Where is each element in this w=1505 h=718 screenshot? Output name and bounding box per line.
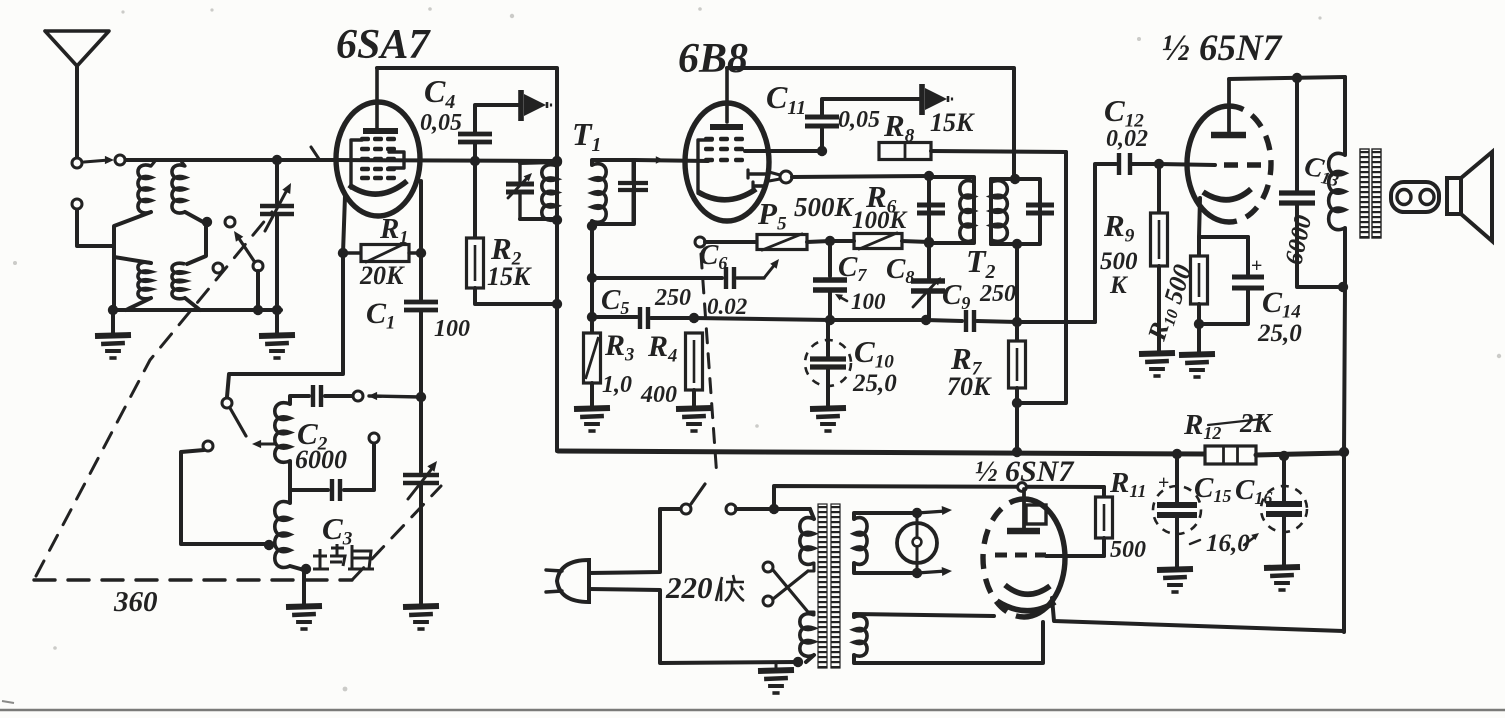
power transformer core	[818, 504, 827, 668]
wire oscillator top row	[290, 396, 309, 404]
output transformer core	[1360, 149, 1369, 238]
ground antenna right	[275, 311, 279, 333]
wire AVC row	[592, 276, 722, 280]
svg-text:100K: 100K	[852, 207, 909, 234]
tube U2 6B8 envelope	[685, 103, 769, 221]
wire oscillator coil to ground	[290, 566, 304, 604]
wire T1 secondary to 6B8 grid	[634, 160, 708, 161]
6SN7 cathode	[1203, 189, 1251, 200]
T2 primary capacitor	[917, 203, 945, 208]
ground C10	[810, 408, 846, 409]
wire L2 bottom to band switch	[185, 212, 205, 223]
wire 6SN7 cathode to R10	[1199, 198, 1200, 237]
wire rectifier cathode to B+ riser	[1052, 598, 1343, 631]
ground C15	[1157, 569, 1193, 570]
wire switch to transformer	[736, 507, 810, 511]
rectifier cathode	[1005, 585, 1050, 594]
wire lever to ground rail	[256, 271, 260, 310]
wire 6SA7 cathode lead	[343, 196, 345, 253]
chassis ground at C4	[518, 90, 524, 121]
band switch idle contact	[213, 263, 223, 273]
capacitor C6	[724, 267, 728, 289]
wire L3 bottom	[126, 298, 151, 310]
6SN7 grid dashes	[1224, 162, 1264, 167]
capacitor C15 electrolytic	[1175, 454, 1179, 502]
speaker	[1447, 178, 1461, 214]
potentiometer P5	[705, 240, 757, 244]
switch S1 antenna	[72, 158, 82, 168]
resistor R8	[879, 143, 931, 160]
variable capacitor tuning gang oscillator	[419, 397, 423, 472]
coil L2 antenna secondary	[172, 165, 185, 213]
wire 6SA7 grid to C4 node	[336, 160, 557, 161]
capacitor C11	[820, 129, 824, 151]
resistor R10	[1197, 237, 1201, 256]
speaker voice-coil connector	[1391, 182, 1439, 212]
svg-text:6SA7: 6SA7	[336, 22, 431, 68]
capacitor C13	[1295, 78, 1299, 190]
capacitor C3 series	[290, 488, 328, 492]
svg-text:6000: 6000	[295, 445, 347, 474]
capacitor C10 electrolytic	[826, 320, 830, 356]
resistor R3	[584, 333, 601, 383]
svg-text:250: 250	[654, 285, 691, 311]
svg-text:70K: 70K	[947, 372, 992, 401]
variable capacitor tuning gang RF	[272, 155, 282, 165]
primary voltage-select cross	[763, 562, 773, 572]
svg-text:20K: 20K	[359, 261, 405, 290]
capacitor C8 trimmer	[927, 242, 931, 278]
svg-text:1,0: 1,0	[602, 372, 632, 398]
ground C16	[1264, 567, 1300, 568]
wire 6SA7 oscillator feedback to coil switch	[227, 253, 343, 397]
oscillator switch	[222, 398, 232, 408]
C3 upper terminal	[369, 433, 379, 443]
chassis ground at C11	[919, 84, 925, 115]
6B8 diode pin	[769, 172, 780, 175]
svg-text:500: 500	[1100, 248, 1138, 275]
resistor R7	[1015, 322, 1019, 341]
antenna idle terminal	[72, 199, 82, 209]
6B8 grid structure	[698, 140, 712, 193]
6B8 top cap stem	[725, 68, 729, 122]
wire 6SA7 top cap to B+ riser	[377, 68, 557, 451]
wire B+ bus	[558, 451, 1205, 454]
wire detector row middle	[694, 318, 830, 320]
power transformer primary upper	[810, 509, 814, 519]
R12 label strike mark	[1208, 419, 1262, 425]
band switch contact	[225, 217, 235, 227]
resistor R1	[338, 248, 348, 258]
ground R3	[574, 408, 610, 409]
heater winding lower	[854, 616, 867, 656]
svg-text:25,0: 25,0	[852, 370, 897, 397]
wire antenna ground rail	[113, 308, 281, 312]
capacitor C7	[828, 241, 832, 276]
rectifier grid dashes	[995, 553, 1046, 558]
dashed gang line volume switch	[701, 254, 717, 478]
svg-text:6B8: 6B8	[678, 36, 748, 82]
wire L4 bottom	[185, 298, 200, 310]
paper specks	[510, 14, 514, 18]
svg-text:K: K	[1109, 272, 1129, 299]
wire B+ riser right	[1344, 287, 1345, 632]
T1 primary trimmer capacitor	[518, 163, 521, 181]
svg-text:250: 250	[979, 281, 1016, 307]
wire mains upper	[589, 509, 681, 573]
6SA7 top cap stem	[375, 68, 379, 129]
oscillator left loop terminal	[203, 441, 213, 451]
oscillator coil upper	[275, 403, 290, 463]
ground R4	[676, 408, 712, 409]
wire diode pin to T2 primary	[792, 176, 929, 177]
C3 padder glyphs	[313, 544, 374, 569]
wire to tuning cap line	[369, 396, 421, 397]
6B8 diode plates	[746, 170, 749, 178]
wire detector row	[592, 315, 637, 319]
wire detector row right	[830, 318, 926, 322]
output transformer primary	[1343, 77, 1347, 155]
wire heater to rectifier filament	[854, 614, 994, 617]
svg-text:0,02: 0,02	[1106, 126, 1148, 152]
oscillator terminal	[353, 391, 363, 401]
wire idle terminal to ground rail	[77, 210, 112, 246]
wire to L4	[187, 223, 206, 264]
wire T1 secondary lower rail	[590, 221, 594, 333]
power switch S2	[681, 504, 691, 514]
coil L3 shortwave primary	[138, 262, 151, 299]
wire grid bus from switch to 6SA7	[126, 158, 336, 162]
resistor R11	[1102, 487, 1106, 497]
ground R9	[1139, 353, 1175, 354]
svg-text:+: +	[1251, 255, 1262, 277]
tube U1 6SA7 envelope	[336, 102, 420, 216]
svg-text:½ 65N7: ½ 65N7	[1162, 28, 1283, 69]
svg-text:100: 100	[851, 289, 886, 314]
wire L3 top	[114, 257, 151, 263]
power transformer primary lower	[800, 614, 814, 656]
resistor R4	[686, 333, 703, 390]
wire rectifier grid to R11	[1046, 554, 1104, 558]
svg-text:+: +	[1158, 472, 1169, 494]
ground antenna left	[111, 310, 115, 333]
resistor R2	[473, 161, 477, 238]
resistor R6	[854, 234, 902, 249]
wire 6SN7 plate to output transformer	[1229, 77, 1345, 79]
T1 secondary winding	[592, 164, 606, 223]
capacitor C1	[419, 253, 423, 300]
wire between oscillator coils	[288, 461, 292, 503]
ground power transformer	[775, 662, 778, 668]
capacitor C16 electrolytic	[1282, 456, 1286, 501]
wire 6B8 plate to R8	[745, 149, 822, 153]
wire detector node to C12 riser	[1017, 320, 1095, 324]
svg-text:400: 400	[640, 382, 677, 408]
wire heater return	[854, 622, 1043, 663]
T2 secondary capacitor	[1026, 203, 1054, 208]
wire oscillator left loop	[181, 450, 266, 544]
stray tick on grid wire	[311, 147, 319, 159]
rectifier plate	[1022, 489, 1026, 529]
svg-text:360: 360	[113, 586, 158, 618]
potentiometer P5 terminal	[695, 237, 705, 247]
wire R7 node to B+ bus	[1015, 403, 1019, 452]
C7 value arrow	[838, 296, 847, 301]
wire L1 bottom	[114, 212, 151, 310]
svg-text:2K: 2K	[1239, 408, 1274, 438]
coil L4 shortwave secondary	[172, 263, 185, 299]
capacitor C14	[1199, 235, 1248, 239]
T2 secondary winding	[991, 179, 1040, 244]
wire B+ bus right	[1256, 453, 1344, 455]
coil L1 antenna primary	[138, 165, 151, 213]
svg-text:15K: 15K	[930, 108, 975, 137]
ground oscillator tuning	[403, 606, 439, 607]
T1 secondary capacitor	[632, 160, 635, 180]
T2 primary winding	[929, 177, 974, 243]
svg-text:500: 500	[1110, 537, 1146, 563]
wire antenna lead	[75, 66, 79, 157]
wire R8 to R7 bottom	[1017, 152, 1066, 403]
svg-text:0.02: 0.02	[707, 294, 747, 319]
svg-text:100: 100	[434, 316, 470, 342]
wire T2 secondary to detector node	[1015, 244, 1019, 322]
capacitor C2 series	[311, 385, 315, 407]
oscillator coil lower	[275, 502, 290, 568]
oscillator tap arrow	[256, 443, 276, 446]
heater winding upper	[854, 518, 867, 565]
6SN7 plate	[1227, 80, 1231, 131]
wire 6SA7 pin to R1/C1	[419, 181, 423, 253]
band switch lever	[253, 261, 263, 271]
tube U3 half 6SN7 audio envelope	[1187, 106, 1229, 222]
wire switch node to rectifier plate	[774, 486, 1104, 509]
ground oscillator coil	[286, 606, 322, 607]
resistor R9	[1157, 164, 1161, 213]
wire C12 to 6SN7 grid	[1159, 164, 1215, 165]
6B8 cathode	[698, 189, 756, 200]
wire mains lower	[589, 589, 798, 663]
mains plug	[557, 560, 589, 602]
pilot lamp	[897, 523, 937, 563]
capacitor C12	[1117, 153, 1121, 175]
ground R10/C14	[1197, 324, 1201, 352]
svg-text:0,05: 0,05	[838, 107, 880, 133]
svg-text:500K: 500K	[794, 192, 855, 222]
antenna	[45, 31, 109, 66]
svg-text:½ 6SN7: ½ 6SN7	[975, 455, 1074, 488]
capacitor C5	[638, 307, 642, 329]
svg-text:220: 220	[665, 570, 713, 605]
svg-text:0,05: 0,05	[420, 110, 462, 136]
tube U4 half 6SN7 rectifier envelope	[983, 499, 1024, 617]
dashed gang line tuning	[36, 212, 272, 576]
svg-text:16,0: 16,0	[1206, 530, 1250, 557]
220V unit glyph	[716, 575, 744, 601]
6SA7 grid structure	[351, 140, 362, 188]
wire 6B8 top cap to T2 riser	[727, 68, 1014, 178]
capacitor C9	[964, 310, 968, 332]
resistor R12	[1205, 446, 1256, 464]
capacitor C4	[470, 156, 480, 166]
wire detector to C12	[1095, 164, 1116, 322]
page rule artifact	[0, 709, 1505, 711]
6SA7 cathode	[349, 181, 407, 194]
svg-text:15K: 15K	[487, 262, 532, 291]
svg-text:25,0: 25,0	[1257, 320, 1302, 347]
T1 primary winding	[542, 165, 557, 220]
